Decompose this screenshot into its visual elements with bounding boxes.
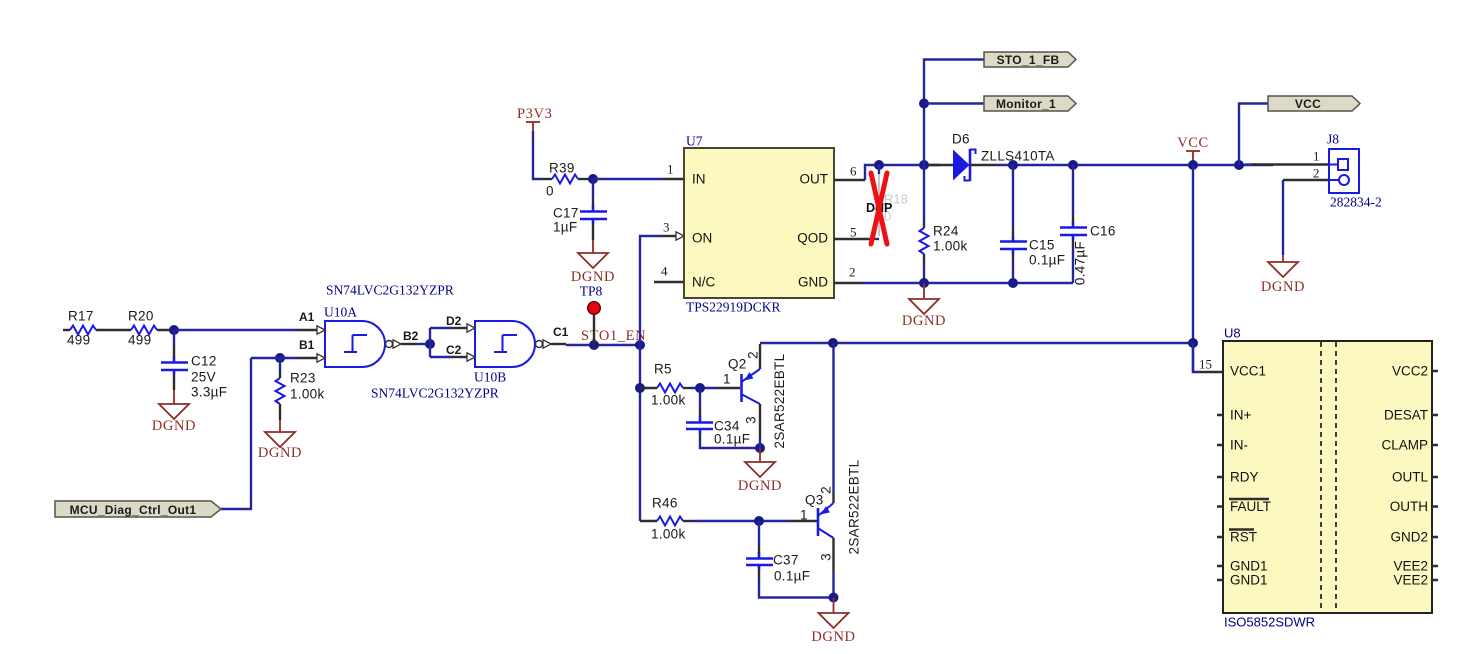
svg-text:499: 499 xyxy=(128,333,151,348)
svg-text:R20: R20 xyxy=(128,309,154,324)
svg-text:VCC: VCC xyxy=(1177,135,1209,151)
svg-text:FAULT: FAULT xyxy=(1230,499,1271,514)
svg-text:C17: C17 xyxy=(553,206,579,221)
svg-text:DGND: DGND xyxy=(571,269,615,285)
wire EN vertical to ON pin xyxy=(640,236,662,345)
svg-text:A1: A1 xyxy=(299,310,315,324)
svg-text:N/C: N/C xyxy=(692,275,716,290)
svg-text:OUTH: OUTH xyxy=(1390,499,1428,514)
svg-text:ZLLS410TA: ZLLS410TA xyxy=(981,149,1055,164)
capacitor C16 xyxy=(1068,160,1078,170)
ground DGND (Q3) xyxy=(833,598,835,614)
wire EN vertical xyxy=(639,345,641,521)
wire to Monitor_1 xyxy=(924,102,984,104)
svg-text:1µF: 1µF xyxy=(553,220,577,235)
svg-text:3: 3 xyxy=(744,416,759,424)
svg-text:CLAMP: CLAMP xyxy=(1381,438,1428,453)
connector J8 xyxy=(1245,163,1256,165)
port VCC xyxy=(1268,96,1360,111)
svg-text:U10A: U10A xyxy=(324,305,357,320)
svg-text:GND2: GND2 xyxy=(1390,530,1428,545)
svg-text:282834-2: 282834-2 xyxy=(1330,195,1382,210)
wire C17 to ground xyxy=(592,224,594,240)
svg-text:0: 0 xyxy=(546,184,554,199)
svg-text:VCC1: VCC1 xyxy=(1230,364,1266,379)
wire R5 to Q2 base xyxy=(691,387,716,389)
node STO1 junction xyxy=(589,340,599,350)
node collector junction xyxy=(828,338,838,348)
svg-text:6: 6 xyxy=(850,164,857,179)
svg-text:C16: C16 xyxy=(1090,224,1116,239)
svg-text:QOD: QOD xyxy=(797,231,828,246)
svg-text:Q2: Q2 xyxy=(728,357,747,372)
wire node to pin1 xyxy=(593,178,664,180)
node to ports junction xyxy=(919,160,929,170)
node R24 gnd junction xyxy=(919,278,929,288)
svg-text:C37: C37 xyxy=(773,553,799,568)
wire node to gate A1 xyxy=(174,329,298,331)
pin D2 arrow xyxy=(467,324,475,332)
resistor R23 xyxy=(279,358,281,372)
svg-text:VEE2: VEE2 xyxy=(1393,573,1428,588)
wire C12 to ground xyxy=(173,375,175,390)
svg-text:DGND: DGND xyxy=(738,478,782,494)
svg-text:R24: R24 xyxy=(933,224,959,239)
wire U10B out to EN node xyxy=(551,343,566,345)
U8 left pin stubs xyxy=(1217,415,1223,580)
svg-text:STO_1_FB: STO_1_FB xyxy=(997,53,1060,67)
svg-text:OUTL: OUTL xyxy=(1392,470,1428,485)
svg-text:499: 499 xyxy=(67,333,90,348)
wire R17 to R20 xyxy=(96,329,131,331)
wire P3V3 to R39 xyxy=(533,131,541,179)
svg-text:DESAT: DESAT xyxy=(1384,408,1428,423)
svg-text:1: 1 xyxy=(667,162,674,177)
svg-text:VCC2: VCC2 xyxy=(1392,364,1428,379)
wire C12 branch xyxy=(173,330,175,345)
svg-text:2: 2 xyxy=(1313,166,1320,181)
svg-text:1.00k: 1.00k xyxy=(651,527,686,542)
svg-text:C1: C1 xyxy=(553,325,569,339)
svg-text:VEE2: VEE2 xyxy=(1393,559,1428,574)
capacitor C17 xyxy=(592,179,594,201)
wire collector net xyxy=(760,342,1193,344)
resistor R5 xyxy=(640,387,657,389)
node B1 junction xyxy=(275,353,285,363)
ground DGND (J8) xyxy=(1268,262,1298,277)
wire to VCC port xyxy=(1239,104,1268,166)
ground DGND (Q2) xyxy=(759,448,761,462)
capacitor C12 xyxy=(173,357,176,362)
svg-text:1: 1 xyxy=(1313,149,1320,164)
svg-text:DGND: DGND xyxy=(811,629,855,645)
svg-text:TPS22919DCKR: TPS22919DCKR xyxy=(686,300,781,315)
svg-text:SN74LVC2G132YZPR: SN74LVC2G132YZPR xyxy=(371,386,499,401)
svg-text:3.3µF: 3.3µF xyxy=(191,385,227,400)
U8 right pin stubs xyxy=(1432,371,1438,580)
pin 5 QOD stub xyxy=(834,238,872,240)
svg-text:DGND: DGND xyxy=(258,445,302,461)
svg-text:15: 15 xyxy=(1199,357,1212,372)
svg-text:R17: R17 xyxy=(68,309,94,324)
svg-text:3: 3 xyxy=(819,553,834,561)
wire R46 branch xyxy=(640,520,657,522)
svg-text:B2: B2 xyxy=(403,329,419,343)
svg-text:3: 3 xyxy=(663,220,670,235)
svg-text:SN74LVC2G132YZPR: SN74LVC2G132YZPR xyxy=(326,283,454,298)
wire pin 15 xyxy=(1193,343,1200,372)
svg-text:J8: J8 xyxy=(1327,132,1339,147)
svg-text:4: 4 xyxy=(661,264,668,279)
node Q3 emitter junction xyxy=(829,593,839,603)
node A1 junction xyxy=(169,325,179,335)
svg-text:D2: D2 xyxy=(446,314,462,328)
wire split to D2/C2 xyxy=(429,328,431,357)
transistor Q3 xyxy=(817,508,820,536)
svg-text:Monitor_1: Monitor_1 xyxy=(996,97,1056,111)
resistor R39 xyxy=(552,175,578,184)
pin 4 N/C stub xyxy=(654,281,684,283)
svg-text:C15: C15 xyxy=(1029,238,1055,253)
ground DGND (rail) xyxy=(923,283,925,299)
svg-text:25V: 25V xyxy=(191,370,216,385)
svg-text:IN+: IN+ xyxy=(1230,408,1252,423)
pin B2 output arrow xyxy=(393,340,401,348)
capacitor C15 xyxy=(1008,160,1018,170)
pin A1 arrow xyxy=(317,326,325,334)
svg-text:IN-: IN- xyxy=(1230,438,1248,453)
svg-text:2: 2 xyxy=(819,486,834,494)
wire R20 to node xyxy=(157,329,174,331)
svg-text:DGND: DGND xyxy=(152,418,196,434)
resistor R24 xyxy=(923,165,925,222)
svg-text:U8: U8 xyxy=(1224,326,1241,341)
DNP red X xyxy=(871,173,887,244)
svg-text:1: 1 xyxy=(800,508,808,523)
svg-text:2: 2 xyxy=(849,265,856,280)
diode D6 xyxy=(928,164,954,166)
svg-text:1.00k: 1.00k xyxy=(290,387,325,402)
node Monitor junction xyxy=(919,99,929,109)
ground DGND (C17) xyxy=(578,253,608,268)
svg-text:D6: D6 xyxy=(952,132,970,147)
wire OUT pin jog xyxy=(834,179,865,181)
svg-text:ON: ON xyxy=(692,231,712,246)
svg-text:0.47µF: 0.47µF xyxy=(1073,241,1088,285)
svg-text:C2: C2 xyxy=(446,343,462,357)
node VCC junction xyxy=(1188,160,1198,170)
svg-text:1: 1 xyxy=(723,372,731,387)
svg-text:VCC: VCC xyxy=(1295,97,1321,111)
svg-text:2SAR522EBTL: 2SAR522EBTL xyxy=(772,353,787,448)
resistor R18 ghost DNP xyxy=(878,165,880,174)
svg-text:GND1: GND1 xyxy=(1230,559,1268,574)
svg-text:0.1µF: 0.1µF xyxy=(774,569,810,584)
svg-text:U7: U7 xyxy=(686,134,703,149)
ground DGND (R23) xyxy=(265,432,295,447)
resistor R46 xyxy=(657,517,683,526)
svg-text:R5: R5 xyxy=(654,362,672,377)
svg-text:C12: C12 xyxy=(191,354,217,369)
wire R39 to node xyxy=(578,178,593,180)
svg-text:RDY: RDY xyxy=(1230,470,1259,485)
wire left stub to R17 xyxy=(63,329,70,331)
pin C2 arrow xyxy=(467,353,475,361)
svg-text:DGND: DGND xyxy=(902,313,946,329)
svg-text:IN: IN xyxy=(692,172,706,187)
svg-text:MCU_Diag_Ctrl_Out1: MCU_Diag_Ctrl_Out1 xyxy=(70,503,197,517)
svg-text:B1: B1 xyxy=(299,338,315,352)
svg-text:R23: R23 xyxy=(290,371,316,386)
svg-text:GND1: GND1 xyxy=(1230,573,1268,588)
op-amp U10A nand gate xyxy=(325,321,385,367)
transistor Q2 xyxy=(740,374,743,402)
svg-text:2SAR522EBTL: 2SAR522EBTL xyxy=(847,459,862,554)
svg-text:TP8: TP8 xyxy=(580,284,603,299)
resistor R20 xyxy=(131,326,157,335)
IC U8 body xyxy=(1223,341,1432,613)
node OUT junction xyxy=(874,160,884,170)
capacitor C37 xyxy=(758,521,760,546)
svg-text:0.1µF: 0.1µF xyxy=(714,432,750,447)
isolation dashed lines xyxy=(1320,342,1322,612)
wire D6 to VCC xyxy=(997,164,1273,166)
port STO_1_FB xyxy=(984,52,1076,67)
svg-text:5: 5 xyxy=(850,225,857,240)
wire J8 pin2 to ground xyxy=(1282,180,1284,255)
pin ON arrow xyxy=(676,232,684,240)
port Monitor_1 xyxy=(984,96,1076,111)
wire VCC down to U8 xyxy=(1192,165,1194,372)
node EN junction xyxy=(635,340,645,350)
wire from MCU port vertical xyxy=(221,358,251,509)
node IN junction xyxy=(588,174,598,184)
svg-text:OUT: OUT xyxy=(800,172,829,187)
svg-text:R46: R46 xyxy=(652,496,678,511)
wire B1 net xyxy=(251,357,298,359)
node VCC1 junction xyxy=(1188,338,1198,348)
wire R23 to ground xyxy=(279,404,281,420)
svg-text:1.00k: 1.00k xyxy=(651,393,686,408)
port MCU_Diag_Ctrl_Out1 xyxy=(55,501,221,517)
svg-text:R39: R39 xyxy=(549,161,575,176)
wire vertical to ports xyxy=(924,60,984,166)
svg-text:U10B: U10B xyxy=(474,370,506,385)
wire R46 to Q3 base xyxy=(693,520,790,522)
svg-text:P3V3: P3V3 xyxy=(517,106,552,122)
capacitor C34 xyxy=(699,388,701,410)
svg-text:RST: RST xyxy=(1230,530,1257,545)
wire U10A out to node xyxy=(401,343,416,345)
resistor R17 xyxy=(70,326,96,335)
wire GND rail xyxy=(834,282,862,284)
node VCC port junction xyxy=(1234,160,1244,170)
svg-text:GND: GND xyxy=(798,275,828,290)
node R5 junction xyxy=(635,383,645,393)
IC U7 body xyxy=(684,148,834,298)
op-amp U10B nand gate xyxy=(475,321,535,367)
pin C1 output arrow xyxy=(543,340,551,348)
svg-text:1.00k: 1.00k xyxy=(933,239,968,254)
svg-text:2: 2 xyxy=(746,351,761,359)
svg-text:ISO5852SDWR: ISO5852SDWR xyxy=(1224,615,1315,630)
pin B1 arrow xyxy=(317,354,325,362)
testpoint TP8 xyxy=(593,314,595,345)
ground DGND (C12) xyxy=(159,404,189,419)
node B2 junction xyxy=(425,339,435,349)
svg-text:0.1µF: 0.1µF xyxy=(1029,253,1065,268)
svg-text:DGND: DGND xyxy=(1261,279,1305,295)
